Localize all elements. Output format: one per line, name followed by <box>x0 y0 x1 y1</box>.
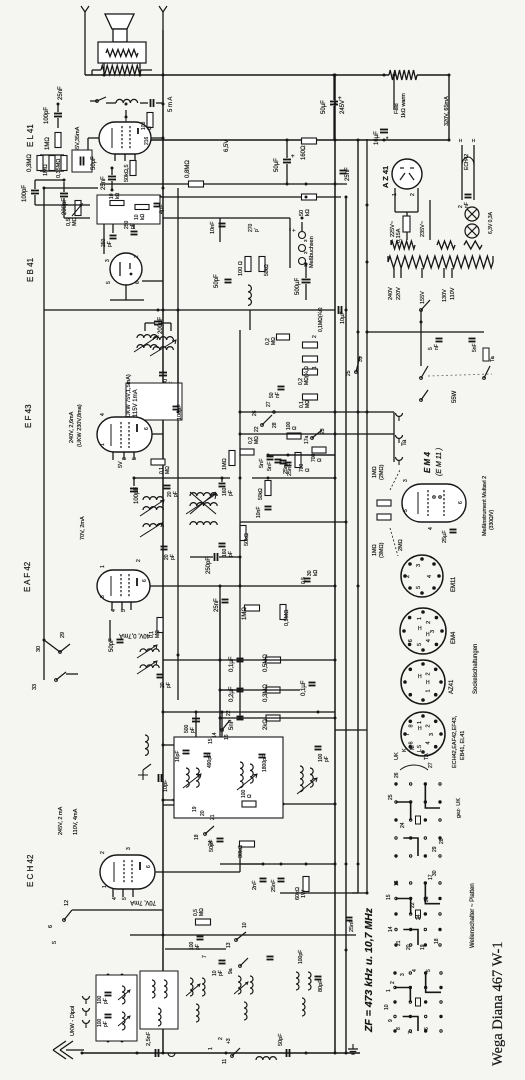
svg-text:2,5nF: 2,5nF <box>146 1031 152 1046</box>
resistor hum shunt <box>101 66 141 75</box>
wire IF1 <box>145 322 155 324</box>
svg-text:16: 16 <box>224 734 230 740</box>
transformer primary <box>388 256 493 268</box>
capacitor 25nF osc <box>278 878 285 880</box>
capacitor 250pF a <box>110 235 117 237</box>
svg-text:50kΩ: 50kΩ <box>244 533 250 546</box>
wire top heater bus 6.3V <box>150 139 449 141</box>
svg-text:24: 24 <box>416 914 422 920</box>
svg-text:200pF: 200pF <box>158 317 164 334</box>
capacitor 100pF g <box>197 936 204 938</box>
svg-text:3: 3 <box>416 564 422 567</box>
wire left secondary vertical bus <box>177 188 179 700</box>
svg-text:25nF: 25nF <box>287 463 293 476</box>
wire messb stub <box>301 222 303 231</box>
svg-text:pF: pF <box>166 682 172 688</box>
resistor field coil <box>389 70 417 80</box>
svg-text:50kΩ: 50kΩ <box>264 264 270 276</box>
resistor 700 chain <box>312 447 326 453</box>
resistor 1M em a <box>377 500 391 506</box>
svg-text:14: 14 <box>388 926 394 932</box>
IF transformer 2 <box>143 497 163 500</box>
svg-text:10µF: 10µF <box>340 311 346 324</box>
svg-text:Ω: Ω <box>317 458 323 462</box>
resistor 100 osc <box>242 801 256 807</box>
svg-text:1: 1 <box>100 565 106 568</box>
osc coil 1 <box>186 768 189 787</box>
svg-text:ECH42,EAF42,EF43,: ECH42,EAF42,EF43, <box>452 715 458 768</box>
svg-text:(UKW 230V,8ma): (UKW 230V,8ma) <box>77 404 83 447</box>
svg-text:+: + <box>159 194 162 200</box>
svg-text:245V, 2 mA: 245V, 2 mA <box>58 806 64 835</box>
resistor 50k 0.5 <box>130 161 136 176</box>
svg-text:21: 21 <box>396 940 402 946</box>
svg-text:H: H <box>418 674 422 680</box>
resistor 10k a <box>110 201 124 206</box>
svg-text:100pF: 100pF <box>298 950 304 964</box>
svg-text:pF: pF <box>103 998 109 1004</box>
socket EM4 <box>400 608 446 654</box>
svg-text:pF: pF <box>170 554 176 560</box>
wire x44 to grid <box>43 640 45 680</box>
svg-text:490pF: 490pF <box>207 754 213 768</box>
wire junction dots <box>162 74 165 77</box>
svg-text:0,1µF: 0,1µF <box>229 656 235 672</box>
capacitor 25nF mid <box>285 462 292 464</box>
svg-text:+3: +3 <box>226 1038 232 1044</box>
svg-text:5nF: 5nF <box>472 343 478 352</box>
svg-text:2: 2 <box>425 672 431 675</box>
resistor 160ohm <box>302 138 317 144</box>
svg-text:0,8MΩ: 0,8MΩ <box>185 160 191 178</box>
capacitor 5nF psu a <box>436 338 443 340</box>
svg-text:2nF: 2nF <box>252 880 258 890</box>
svg-text:70V, 7mA: 70V, 7mA <box>130 899 156 905</box>
svg-text:2MΩ: 2MΩ <box>398 539 404 551</box>
svg-text:10pF: 10pF <box>163 779 169 792</box>
osc triode marks <box>138 764 151 780</box>
svg-text:5: 5 <box>106 281 112 284</box>
svg-text:11: 11 <box>222 1059 228 1064</box>
svg-text:1: 1 <box>102 885 108 888</box>
pot 0.5M volume <box>75 201 81 216</box>
svg-text:kΩ: kΩ <box>115 193 121 200</box>
svg-text:27: 27 <box>266 401 272 407</box>
capacitor 50pF eaf <box>117 639 124 641</box>
svg-text:kΩ: kΩ <box>305 209 311 216</box>
svg-text:5V: 5V <box>118 461 124 468</box>
svg-text:22: 22 <box>254 426 260 432</box>
svg-text:5: 5 <box>426 969 432 972</box>
svg-text:(UKW 75V,1,5mA): (UKW 75V,1,5mA) <box>126 374 132 419</box>
capacitor 20pF if2b <box>161 546 168 548</box>
svg-text:(330Ω/V): (330Ω/V) <box>489 510 495 530</box>
capacitor tone 5mA <box>150 99 152 107</box>
wire EAF42 pin stubs <box>111 602 113 610</box>
svg-text:6,5V: 6,5V <box>224 140 230 152</box>
svg-text:p': p' <box>254 228 260 232</box>
capacitor 100pF in b <box>105 1014 112 1016</box>
svg-text:Ω: Ω <box>147 126 153 130</box>
resistor 0.35M <box>61 156 67 171</box>
coil if2 lower <box>143 524 163 527</box>
svg-text:130V: 130V <box>442 289 448 302</box>
svg-text:3: 3 <box>400 973 406 976</box>
svg-text:245V: 245V <box>340 100 346 114</box>
socket rimlock <box>401 712 445 756</box>
svg-text:2kΩ: 2kΩ <box>263 719 269 730</box>
switch 25 31 <box>355 371 358 374</box>
socket AZ41 <box>401 660 445 704</box>
svg-text:6: 6 <box>409 741 415 744</box>
svg-text:K: K <box>402 748 408 752</box>
box diode network <box>97 195 160 224</box>
svg-text:10: 10 <box>384 1004 390 1010</box>
svg-text:25nF: 25nF <box>214 598 220 612</box>
resistor 1M <box>55 133 61 148</box>
resistor 0.5M osc <box>196 919 211 925</box>
wire row y935 <box>130 934 356 936</box>
resistor 100 chain <box>287 433 301 439</box>
svg-text:pF: pF <box>107 241 113 247</box>
wire psu box <box>394 188 396 212</box>
svg-text:MΩ: MΩ <box>199 908 205 916</box>
winding heater <box>464 241 482 249</box>
resistor 0.5M eaf <box>280 605 286 620</box>
svg-text:2: 2 <box>312 335 318 338</box>
capacitor 490pF <box>204 753 211 755</box>
svg-text:2: 2 <box>136 559 142 562</box>
svg-text:30: 30 <box>36 646 42 652</box>
capacitor 160pF if2b <box>219 543 226 545</box>
svg-text:25nF: 25nF <box>101 176 107 190</box>
resistor 100ohm v <box>245 257 251 272</box>
wire ebc41 b <box>110 299 144 301</box>
svg-text:250pF: 250pF <box>206 557 212 574</box>
svg-text:1800pF: 1800pF <box>262 755 268 772</box>
svg-text:H: H <box>426 632 430 638</box>
svg-text:1MΩ: 1MΩ <box>372 466 378 478</box>
wire conv <box>72 909 163 911</box>
svg-text:gez· UK: gez· UK <box>456 798 462 818</box>
fuse 0.15A <box>403 216 410 232</box>
svg-text:8: 8 <box>396 1027 402 1030</box>
svg-text:15: 15 <box>386 894 392 900</box>
capacitor 2nF osc <box>260 878 267 880</box>
tube AZ41 <box>392 159 422 189</box>
wire row y455 <box>268 454 335 456</box>
svg-text:80pF: 80pF <box>318 979 324 992</box>
svg-text:0,3MΩ: 0,3MΩ <box>263 684 269 702</box>
speaker LS <box>105 14 134 29</box>
coil osc top <box>145 735 148 755</box>
capacitor 250pF b <box>131 231 138 233</box>
band coil box 2 <box>140 971 178 1029</box>
resistor 0.1M ef <box>151 459 165 465</box>
wire row y218 <box>163 217 290 219</box>
svg-text:25nF: 25nF <box>349 919 355 932</box>
svg-text:MΩ(¼,Ω: MΩ(¼,Ω <box>304 366 310 385</box>
fuse Ta <box>483 348 489 361</box>
wire v right top <box>393 75 395 110</box>
dashed pointer <box>390 470 400 490</box>
wire if2 <box>134 477 230 479</box>
resistor 50k v <box>259 257 265 272</box>
resistor 0.3M <box>37 156 43 171</box>
wire psu h <box>367 331 484 333</box>
wire lower rows <box>220 659 335 661</box>
wire right vertical bus with corner <box>280 139 367 893</box>
coil det <box>248 285 251 305</box>
svg-text:160Ω: 160Ω <box>301 145 307 160</box>
svg-text:pF: pF <box>218 970 224 976</box>
capacitor 100pF ef <box>173 406 180 408</box>
svg-text:25nF: 25nF <box>58 86 64 100</box>
svg-text:H: H <box>426 680 430 686</box>
svg-text:21: 21 <box>210 814 216 820</box>
resistor 1M em b <box>377 514 391 520</box>
wire left mid <box>43 188 45 640</box>
switch 17a 23 <box>311 437 314 440</box>
wafer switch 1 <box>394 782 397 785</box>
svg-text:5: 5 <box>403 509 409 512</box>
band coils 5 <box>296 972 299 990</box>
wire mid vertical bus B <box>345 197 347 1053</box>
svg-text:pF: pF <box>130 223 136 229</box>
wire EL41 pin stubs <box>114 154 116 161</box>
svg-text:5nF: 5nF <box>259 458 265 468</box>
tube EM4 <box>402 484 466 522</box>
svg-text:40V, 0,7mA: 40V, 0,7mA <box>119 632 150 638</box>
coil eaf a <box>140 649 159 652</box>
svg-text:225V~: 225V~ <box>390 221 396 237</box>
wire bus y184 <box>100 183 347 185</box>
svg-text:12: 12 <box>64 900 70 906</box>
capacitor 0.1uF c <box>309 682 316 684</box>
svg-text:30kΩ: 30kΩ <box>238 845 244 858</box>
capacitor 50pF ant <box>286 1049 288 1057</box>
wafer switch 3 <box>393 971 396 974</box>
svg-text:Ta: Ta <box>402 439 408 446</box>
wire y864 seg <box>240 863 263 865</box>
svg-text:EM4: EM4 <box>451 631 457 644</box>
wire psu v <box>420 322 422 366</box>
svg-text:1MΩ: 1MΩ <box>45 137 51 150</box>
svg-text:3: 3 <box>122 457 128 460</box>
svg-text:MΩ: MΩ <box>165 466 171 474</box>
svg-text:27: 27 <box>428 762 434 768</box>
svg-text:UK: UK <box>394 752 400 760</box>
svg-text:M: M <box>410 745 416 750</box>
svg-text:pF: pF <box>190 727 196 733</box>
svg-text:235V~: 235V~ <box>420 221 426 237</box>
wire left mid2 <box>66 673 78 675</box>
wire ech42 out <box>155 871 240 873</box>
svg-text:MΩ: MΩ <box>155 630 161 638</box>
heater subckt ECH42 <box>461 145 463 200</box>
svg-text:50pF: 50pF <box>209 839 215 852</box>
svg-text:Ω: Ω <box>305 468 311 472</box>
svg-text:17a: 17a <box>304 435 310 444</box>
wire h rows mid <box>163 309 335 311</box>
svg-text:5: 5 <box>122 897 128 900</box>
svg-text:6,3V 0,3A: 6,3V 0,3A <box>488 211 494 234</box>
svg-text:200pF: 200pF <box>62 198 68 215</box>
svg-text:23: 23 <box>320 428 326 434</box>
svg-text:0,2µF: 0,2µF <box>229 686 235 702</box>
svg-text:E A F 42: E A F 42 <box>23 561 32 592</box>
svg-text:2: 2 <box>390 981 396 984</box>
capacitor 20pF eaf <box>157 674 164 676</box>
svg-text:2: 2 <box>425 724 431 727</box>
capacitor 50pF osc <box>217 838 224 840</box>
resistor 10k b <box>135 205 149 210</box>
capacitor 2.5nF <box>155 1049 157 1057</box>
svg-text:5: 5 <box>132 457 138 460</box>
svg-text:5: 5 <box>52 941 58 944</box>
svg-text:E C H 42: E C H 42 <box>26 854 35 887</box>
capacitor 25nF ef <box>280 460 287 462</box>
wire row y949 <box>165 948 226 950</box>
svg-text:1: 1 <box>417 721 423 724</box>
svg-text:26: 26 <box>394 772 400 778</box>
capacitor 5nF c <box>237 716 244 718</box>
svg-text:9a: 9a <box>228 968 234 974</box>
svg-text:28: 28 <box>439 838 445 844</box>
svg-text:ECH42: ECH42 <box>464 154 470 170</box>
svg-text:6: 6 <box>135 281 141 284</box>
tube EF43 <box>97 417 152 452</box>
svg-text:1MΩ: 1MΩ <box>372 544 378 556</box>
socket Messbuchsen <box>299 232 306 239</box>
svg-text:320V, 65mA: 320V, 65mA <box>444 96 450 126</box>
wire net2 <box>40 154 64 156</box>
svg-text:20: 20 <box>200 810 206 816</box>
svg-text:33: 33 <box>32 684 38 690</box>
capacitor 160pF if2a <box>219 483 226 485</box>
osc coil 3 <box>300 766 303 792</box>
antenna arrow <box>53 1041 84 1059</box>
svg-text:24: 24 <box>400 822 406 828</box>
capacitor 10nF <box>219 223 226 225</box>
wire messb <box>289 228 291 268</box>
svg-text:220V: 220V <box>396 287 402 300</box>
svg-text:pF: pF <box>103 1021 109 1027</box>
svg-text:50pF: 50pF <box>278 1033 284 1046</box>
capacitor 500uF <box>302 279 311 281</box>
winding anode a <box>391 241 415 249</box>
wire HT bus y75 <box>85 74 389 76</box>
capacitor 0.1uF b <box>237 658 244 660</box>
capacitor 100pF b <box>31 190 39 192</box>
resistor chain r3 <box>303 369 318 375</box>
svg-text:Ta: Ta <box>490 355 496 362</box>
coil output choke <box>116 99 138 103</box>
svg-text:8: 8 <box>409 724 415 727</box>
switch 18 24 <box>204 833 207 836</box>
capacitor 25uF <box>450 529 457 531</box>
svg-text:pF: pF <box>173 491 179 497</box>
resistor 700 ef <box>295 453 301 468</box>
svg-text:240V: 240V <box>388 287 394 300</box>
wire osc box feeds <box>195 712 197 737</box>
svg-text:7: 7 <box>202 955 208 958</box>
wire left main vertical bus <box>162 30 164 1053</box>
antenna terminals <box>83 996 90 1000</box>
svg-text:0,1µF: 0,1µF <box>301 680 307 696</box>
svg-text:E L 41: E L 41 <box>26 124 35 147</box>
wire bus y197 <box>150 196 341 198</box>
svg-text:E F 43: E F 43 <box>24 404 33 428</box>
terminal bottom <box>168 1053 175 1057</box>
input coil box <box>96 975 137 1041</box>
wire y310 left <box>44 309 163 311</box>
svg-text:100pF: 100pF <box>22 185 28 202</box>
svg-text:TA: TA <box>424 753 430 760</box>
svg-text:240V, 2,6mA: 240V, 2,6mA <box>69 411 75 443</box>
svg-text:0,5MΩ: 0,5MΩ <box>284 610 290 626</box>
svg-text:1: 1 <box>417 617 423 620</box>
wire bottom ground bus <box>82 1052 360 1054</box>
wire v mid <box>239 330 241 610</box>
capacitor 25nF eaf <box>222 599 229 601</box>
svg-text:10nF: 10nF <box>256 507 262 518</box>
svg-text:70V, 2mA: 70V, 2mA <box>80 516 86 540</box>
switch 14 22 <box>221 729 224 732</box>
socket EM11 <box>401 555 443 597</box>
svg-text:pF: pF <box>324 756 330 762</box>
svg-text:19: 19 <box>192 806 198 812</box>
svg-text:5: 5 <box>417 745 423 748</box>
svg-text:6: 6 <box>48 925 54 928</box>
svg-text:H: H <box>418 626 422 632</box>
svg-text:100pF: 100pF <box>134 487 140 504</box>
svg-text:MΩ: MΩ <box>271 337 277 345</box>
svg-text:nF: nF <box>275 392 281 398</box>
svg-text:3: 3 <box>105 259 111 262</box>
capacitor 250pF eaf <box>214 553 216 561</box>
wire osc rows <box>163 711 335 713</box>
capacitor 100pF osc <box>315 746 322 748</box>
capacitor 10pF osc <box>158 774 160 782</box>
coil ant <box>256 1057 276 1060</box>
svg-text:2: 2 <box>405 575 411 578</box>
resistor 50k mid <box>265 481 271 496</box>
svg-text:9: 9 <box>388 1019 394 1022</box>
svg-text:2: 2 <box>410 193 416 196</box>
resistor 30k osc <box>240 841 255 847</box>
svg-text:5 m A: 5 m A <box>168 97 174 112</box>
svg-text:100 Ω: 100 Ω <box>238 261 244 276</box>
svg-text:4: 4 <box>426 639 432 642</box>
svg-text:nF: nF <box>434 344 440 350</box>
svg-text:100pF: 100pF <box>44 107 50 124</box>
capacitor 0.2uF <box>237 688 244 690</box>
wire EL41 anode <box>125 110 127 117</box>
svg-text:25: 25 <box>346 370 352 376</box>
wire y805 left <box>163 804 174 806</box>
svg-text:Ω: Ω <box>292 426 298 430</box>
svg-text:Ω: Ω <box>247 794 253 798</box>
svg-text:22: 22 <box>410 902 416 908</box>
coil eaf b <box>140 665 159 668</box>
svg-text:29: 29 <box>432 846 438 852</box>
svg-text:4: 4 <box>112 897 118 900</box>
svg-text:pF: pF <box>228 490 234 496</box>
svg-text:1W: 1W <box>301 889 307 898</box>
antenna terminal left <box>81 6 89 12</box>
switch 22 28 cluster <box>261 424 264 427</box>
